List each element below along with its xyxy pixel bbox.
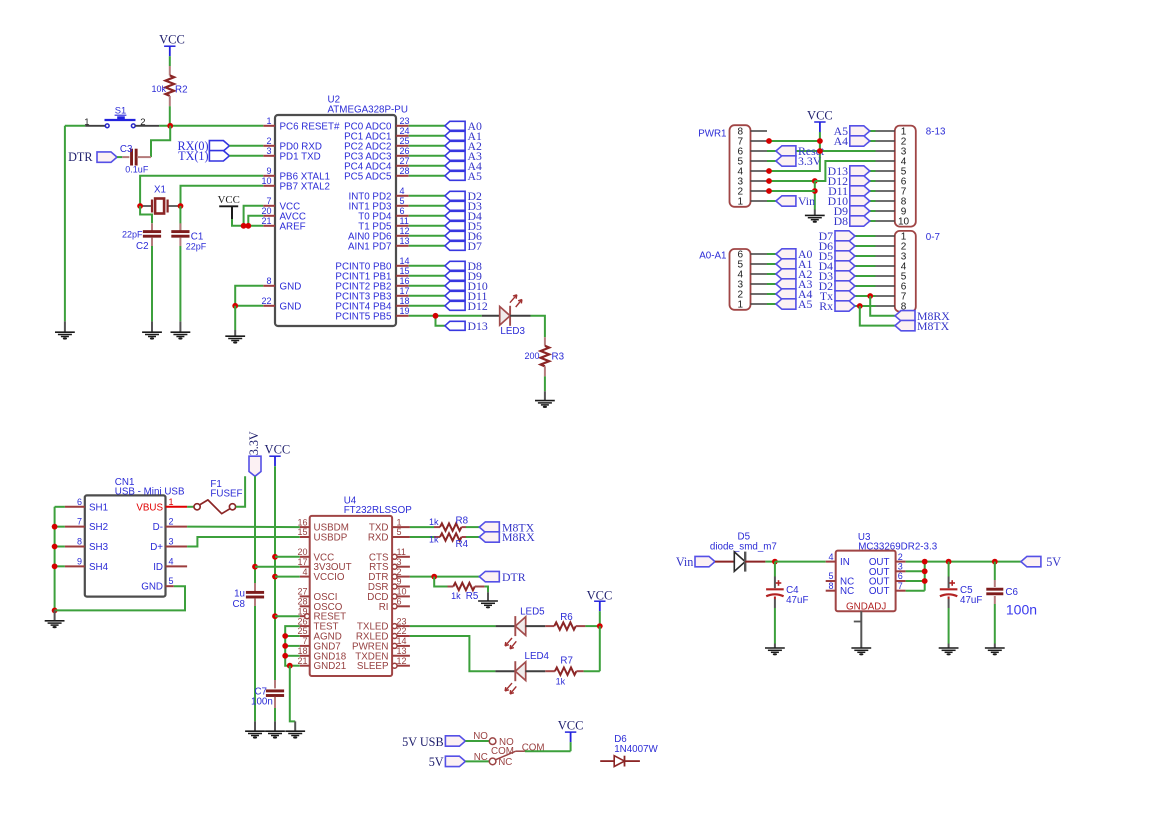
svg-text:SH4: SH4	[89, 562, 109, 573]
svg-text:USB - Mini USB: USB - Mini USB	[115, 487, 185, 498]
svg-text:AIN1 PD7: AIN1 PD7	[348, 241, 392, 252]
svg-text:R2: R2	[175, 84, 188, 95]
svg-text:IN: IN	[840, 557, 850, 568]
svg-text:diode_smd_m7: diode_smd_m7	[710, 541, 777, 552]
svg-text:SH3: SH3	[89, 542, 109, 553]
svg-text:21: 21	[297, 656, 307, 666]
svg-text:OUT: OUT	[869, 586, 890, 597]
svg-text:M8TX: M8TX	[917, 319, 950, 333]
svg-text:5: 5	[169, 576, 174, 586]
svg-text:10k: 10k	[151, 84, 166, 94]
svg-text:9: 9	[77, 556, 82, 566]
svg-text:SLEEP: SLEEP	[357, 661, 389, 672]
svg-text:6: 6	[898, 571, 903, 581]
svg-text:FUSEF: FUSEF	[210, 488, 242, 499]
svg-text:8: 8	[77, 537, 82, 547]
svg-text:R4: R4	[456, 539, 469, 550]
svg-text:7: 7	[266, 196, 271, 206]
svg-text:3: 3	[898, 562, 903, 572]
svg-text:2: 2	[397, 567, 402, 577]
svg-text:5V: 5V	[1046, 555, 1061, 569]
svg-text:47uF: 47uF	[786, 595, 808, 606]
svg-text:S1: S1	[115, 105, 126, 116]
svg-text:200: 200	[524, 351, 539, 361]
svg-text:19: 19	[297, 606, 307, 616]
svg-text:100n: 100n	[251, 697, 273, 708]
svg-text:5: 5	[400, 196, 405, 206]
svg-text:D13: D13	[468, 319, 488, 333]
svg-text:14: 14	[397, 636, 407, 646]
svg-text:M8RX: M8RX	[502, 530, 535, 544]
svg-text:LED3: LED3	[500, 326, 525, 337]
svg-text:LED5: LED5	[520, 606, 545, 617]
svg-text:12: 12	[400, 226, 410, 236]
svg-text:23: 23	[400, 116, 410, 126]
svg-text:C2: C2	[136, 241, 149, 252]
svg-text:18: 18	[400, 296, 410, 306]
svg-text:9: 9	[397, 577, 402, 587]
svg-text:10: 10	[397, 587, 407, 597]
svg-text:1: 1	[84, 117, 89, 128]
svg-text:R7: R7	[560, 656, 573, 667]
svg-text:NC: NC	[474, 752, 488, 763]
svg-text:AREF: AREF	[280, 221, 306, 232]
svg-text:SH1: SH1	[89, 502, 108, 513]
svg-text:D8: D8	[834, 214, 849, 228]
svg-text:RXD: RXD	[368, 533, 389, 544]
svg-text:VCC: VCC	[265, 443, 291, 457]
svg-text:A0-A1: A0-A1	[699, 251, 726, 262]
svg-text:X1: X1	[154, 185, 166, 196]
svg-text:12: 12	[397, 656, 407, 666]
svg-text:11: 11	[397, 547, 406, 557]
svg-text:C6: C6	[1005, 587, 1018, 598]
svg-text:16: 16	[297, 517, 307, 527]
svg-text:R5: R5	[466, 591, 479, 602]
svg-text:22: 22	[397, 626, 407, 636]
svg-text:5V USB: 5V USB	[402, 735, 443, 749]
svg-text:SH2: SH2	[89, 522, 108, 533]
svg-text:10: 10	[261, 176, 271, 186]
svg-text:22: 22	[261, 296, 271, 306]
svg-text:4: 4	[400, 186, 405, 196]
svg-text:VCC: VCC	[218, 194, 240, 206]
svg-text:8: 8	[828, 581, 833, 591]
svg-text:27: 27	[400, 156, 410, 166]
svg-text:15: 15	[400, 266, 410, 276]
svg-text:1: 1	[397, 517, 402, 527]
svg-text:8-13: 8-13	[926, 127, 946, 138]
svg-text:16: 16	[400, 276, 410, 286]
svg-text:0.1uF: 0.1uF	[125, 165, 149, 175]
svg-text:1u: 1u	[234, 589, 245, 600]
svg-text:26: 26	[297, 616, 307, 626]
svg-text:2: 2	[169, 517, 174, 527]
svg-text:6: 6	[400, 206, 405, 216]
svg-text:Rx: Rx	[819, 299, 833, 313]
svg-text:C3: C3	[120, 144, 133, 155]
svg-text:VBUS: VBUS	[136, 502, 163, 513]
svg-text:VCC: VCC	[558, 719, 584, 733]
svg-text:2: 2	[140, 117, 145, 128]
svg-text:TX(1): TX(1)	[178, 149, 208, 163]
svg-text:PCINT5 PB5: PCINT5 PB5	[335, 311, 392, 322]
svg-text:D-: D-	[153, 522, 163, 533]
svg-text:3.3V: 3.3V	[247, 431, 261, 455]
svg-text:7: 7	[302, 636, 307, 646]
svg-text:1k: 1k	[451, 591, 461, 601]
svg-text:4: 4	[169, 556, 174, 566]
svg-text:0-7: 0-7	[926, 232, 940, 243]
svg-text:1k: 1k	[429, 517, 439, 527]
svg-text:VCC: VCC	[587, 588, 613, 602]
svg-text:3: 3	[397, 557, 402, 567]
svg-text:1: 1	[738, 300, 744, 311]
svg-text:D7: D7	[468, 239, 483, 253]
svg-text:22pF: 22pF	[186, 241, 207, 251]
svg-text:A4: A4	[834, 134, 849, 148]
svg-text:6: 6	[77, 497, 82, 507]
svg-text:ATMEGA328P-PU: ATMEGA328P-PU	[328, 105, 408, 116]
svg-text:RI: RI	[379, 602, 389, 613]
svg-text:5: 5	[828, 571, 833, 581]
svg-text:MC33269DR2-3.3: MC33269DR2-3.3	[858, 541, 938, 552]
svg-text:25: 25	[297, 626, 307, 636]
svg-text:25: 25	[400, 136, 410, 146]
svg-text:PD1 TXD: PD1 TXD	[280, 151, 321, 162]
svg-text:2: 2	[266, 136, 271, 146]
svg-text:3: 3	[169, 537, 174, 547]
svg-text:3: 3	[266, 146, 271, 156]
svg-text:28: 28	[297, 597, 307, 607]
svg-text:15: 15	[297, 527, 307, 537]
svg-text:1: 1	[738, 197, 744, 208]
svg-text:GND: GND	[141, 582, 163, 593]
svg-text:PWR1: PWR1	[698, 128, 726, 139]
svg-text:13: 13	[400, 236, 410, 246]
svg-text:4: 4	[302, 567, 307, 577]
svg-text:6: 6	[397, 597, 402, 607]
svg-text:NC: NC	[840, 586, 854, 597]
svg-text:A5: A5	[468, 169, 483, 183]
svg-text:18: 18	[297, 646, 307, 656]
svg-text:1: 1	[169, 497, 174, 507]
svg-text:3.3V: 3.3V	[798, 154, 822, 168]
svg-text:17: 17	[400, 286, 410, 296]
svg-text:28: 28	[400, 166, 410, 176]
svg-text:ID: ID	[153, 562, 163, 573]
svg-text:11: 11	[400, 216, 409, 226]
svg-text:8: 8	[266, 276, 271, 286]
svg-text:PC5 ADC5: PC5 ADC5	[344, 171, 392, 182]
svg-text:Vin: Vin	[676, 555, 694, 569]
svg-text:21: 21	[261, 216, 271, 226]
svg-text:DTR: DTR	[68, 150, 93, 164]
svg-text:VCC: VCC	[807, 108, 833, 122]
svg-text:GND: GND	[280, 281, 302, 292]
svg-text:VCC: VCC	[159, 33, 185, 47]
svg-text:PB7 XTAL2: PB7 XTAL2	[280, 181, 330, 192]
svg-text:1k: 1k	[429, 534, 439, 544]
svg-text:20: 20	[261, 206, 271, 216]
svg-text:100n: 100n	[1006, 601, 1037, 617]
svg-text:13: 13	[397, 646, 407, 656]
svg-text:17: 17	[297, 557, 307, 567]
svg-text:22pF: 22pF	[122, 230, 143, 240]
svg-text:24: 24	[400, 126, 410, 136]
svg-text:7: 7	[898, 581, 903, 591]
svg-text:19: 19	[400, 306, 410, 316]
svg-text:14: 14	[400, 256, 410, 266]
svg-text:R8: R8	[456, 515, 469, 526]
svg-text:20: 20	[297, 547, 307, 557]
svg-text:4: 4	[828, 552, 833, 562]
svg-text:PC6 RESET#: PC6 RESET#	[280, 121, 340, 132]
svg-text:C8: C8	[232, 599, 245, 610]
svg-text:GND: GND	[280, 301, 302, 312]
svg-text:R6: R6	[560, 612, 573, 623]
svg-text:2: 2	[898, 552, 903, 562]
svg-text:26: 26	[400, 146, 410, 156]
svg-text:LED4: LED4	[525, 651, 550, 662]
svg-text:DTR: DTR	[502, 570, 526, 584]
svg-text:FT232RLSSOP: FT232RLSSOP	[344, 505, 413, 516]
svg-text:1N4007W: 1N4007W	[614, 744, 658, 755]
svg-text:5V: 5V	[429, 755, 444, 769]
svg-text:D12: D12	[468, 299, 488, 313]
svg-text:47uF: 47uF	[960, 595, 982, 606]
svg-text:23: 23	[397, 616, 407, 626]
svg-text:A5: A5	[798, 297, 813, 311]
svg-text:D+: D+	[150, 542, 163, 553]
svg-text:COM: COM	[491, 746, 514, 757]
svg-text:GND21: GND21	[314, 661, 347, 672]
svg-text:USBDP: USBDP	[314, 533, 348, 544]
svg-text:Vin: Vin	[798, 194, 815, 208]
svg-text:R3: R3	[552, 351, 565, 362]
svg-text:10: 10	[898, 217, 910, 228]
svg-text:5: 5	[397, 527, 402, 537]
svg-text:1: 1	[266, 116, 271, 126]
svg-text:VCCIO: VCCIO	[314, 572, 345, 583]
svg-text:27: 27	[297, 587, 307, 597]
svg-text:NO: NO	[473, 731, 488, 742]
svg-text:7: 7	[77, 517, 82, 527]
svg-text:1k: 1k	[556, 676, 566, 686]
svg-text:GNDADJ: GNDADJ	[846, 602, 886, 613]
svg-text:9: 9	[266, 166, 271, 176]
